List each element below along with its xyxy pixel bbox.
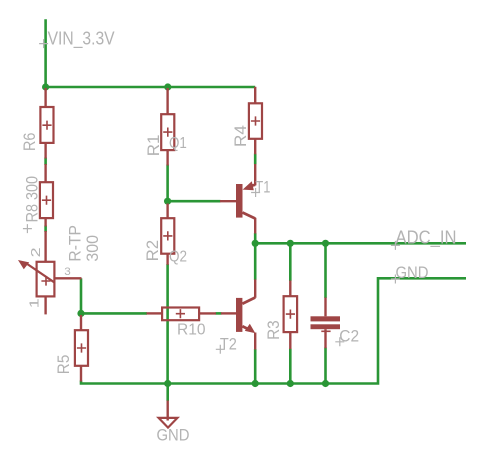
resistor R4 bbox=[249, 87, 262, 155]
svg-text:2: 2 bbox=[28, 247, 43, 257]
wire R6-R8 link bbox=[44, 158, 47, 166]
resistor R6 bbox=[40, 88, 53, 159]
resistor R5 bbox=[75, 315, 88, 382]
junction ADC_IN at T1/T2 bbox=[252, 240, 259, 247]
wire ground bus and GND net bbox=[81, 278, 466, 383]
label origin cross ADC_IN bbox=[391, 241, 400, 250]
wire T2 emitter to bus bbox=[254, 349, 257, 384]
svg-text:R1: R1 bbox=[145, 135, 163, 157]
wire ADC_IN horizontal bbox=[255, 242, 466, 245]
wire column C R2 down to ground bus bbox=[166, 264, 169, 384]
wire R10 to T2 base tick bbox=[216, 312, 222, 315]
junction VIN at column C bbox=[164, 83, 171, 90]
resistor R10 bbox=[147, 308, 217, 321]
junction VIN at column A bbox=[42, 83, 49, 90]
junction bus at T2 emitter bbox=[252, 380, 259, 387]
junction bus at ground bbox=[164, 380, 171, 387]
svg-text:R-TP: R-TP bbox=[66, 225, 85, 262]
junction ADC_IN at R3 bbox=[287, 240, 294, 247]
svg-text:Q2: Q2 bbox=[169, 248, 187, 265]
junction bus at C2 bbox=[322, 380, 329, 387]
ground symbol bbox=[159, 401, 178, 428]
wire R10 row left bbox=[81, 312, 147, 315]
svg-text:R10: R10 bbox=[177, 322, 206, 339]
svg-text:R5: R5 bbox=[55, 355, 73, 375]
wire column C R1 to junction bbox=[166, 165, 169, 202]
svg-text:T1: T1 bbox=[255, 179, 270, 197]
wire T1 base horizontal bbox=[168, 200, 221, 203]
svg-text:GND: GND bbox=[157, 426, 190, 445]
wire VIN_3.3V vertical stub bbox=[44, 19, 47, 87]
svg-text:300: 300 bbox=[83, 235, 102, 262]
label origin cross VIN_3.3V bbox=[39, 39, 48, 48]
svg-text:3: 3 bbox=[64, 266, 71, 278]
wire T1 collector to T2 collector bbox=[254, 233, 257, 280]
svg-text:R3: R3 bbox=[265, 320, 283, 340]
svg-text:R4: R4 bbox=[232, 125, 250, 147]
transistor T1 (PNP) bbox=[220, 164, 255, 234]
svg-text:C2: C2 bbox=[339, 328, 359, 346]
wire C2 bottom bbox=[324, 348, 327, 384]
resistor R1 bbox=[161, 88, 174, 166]
wire R8-RTP link bbox=[44, 226, 47, 233]
svg-text:Q1: Q1 bbox=[169, 135, 187, 152]
label origin cross R8 bbox=[23, 224, 32, 233]
resistor R2 bbox=[161, 204, 174, 265]
wire R3 bottom bbox=[289, 349, 292, 384]
wire VIN rail horizontal bbox=[46, 86, 256, 89]
junction bus at R3 bbox=[287, 380, 294, 387]
svg-text:R2: R2 bbox=[144, 240, 162, 262]
junction ADC_IN at C2 bbox=[322, 240, 329, 247]
label origin cross T2 bbox=[216, 345, 225, 354]
wire node B pot wiper to R5 vertical bbox=[80, 278, 83, 315]
svg-text:R6: R6 bbox=[21, 133, 39, 151]
svg-text:ADC_IN: ADC_IN bbox=[396, 228, 457, 249]
label origin cross C2 bbox=[335, 337, 344, 346]
label origin cross GND net bbox=[391, 275, 400, 284]
resistor R3 bbox=[284, 281, 298, 350]
wire ground symbol drop bbox=[166, 384, 169, 402]
svg-text:GND: GND bbox=[396, 263, 429, 282]
svg-text:R8 300: R8 300 bbox=[24, 176, 42, 222]
resistor R8 bbox=[40, 164, 53, 227]
potentiometer R-TP bbox=[18, 231, 82, 314]
junction T1 base node bbox=[164, 198, 171, 205]
capacitor C2 bbox=[311, 298, 341, 349]
label origin cross T1 bbox=[251, 188, 260, 197]
transistor T2 (NPN) bbox=[221, 279, 255, 349]
wire R3 top bbox=[289, 243, 292, 281]
junction pot wiper / R5 node bbox=[77, 310, 84, 317]
svg-text:VIN_3.3V: VIN_3.3V bbox=[48, 29, 115, 50]
svg-text:T2: T2 bbox=[220, 335, 237, 353]
wire R4 to T1 emitter tick bbox=[254, 154, 257, 165]
wire C2 top bbox=[324, 243, 327, 298]
svg-text:1: 1 bbox=[26, 298, 41, 308]
